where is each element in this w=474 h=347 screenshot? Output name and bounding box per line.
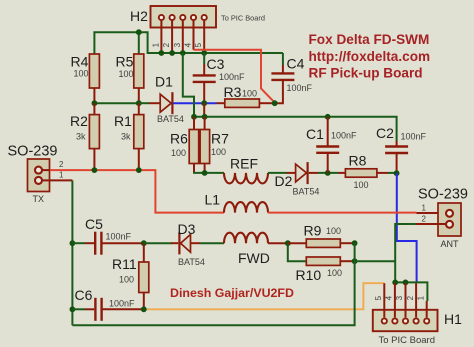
svg-text:100nF: 100nF xyxy=(106,232,132,242)
wire green bottom rail xyxy=(72,243,354,325)
header H1 xyxy=(373,310,438,331)
capacitor C2 xyxy=(385,141,408,173)
svg-text:100nF: 100nF xyxy=(331,131,357,141)
wire green R10 right to H1 pin4 xyxy=(355,260,396,262)
svg-text:Fox Delta FD-SWM: Fox Delta FD-SWM xyxy=(309,32,430,47)
svg-text:100nF: 100nF xyxy=(287,83,313,93)
resistor R11 xyxy=(143,243,145,262)
capacitor C3 xyxy=(193,53,216,103)
junction R6 top xyxy=(191,114,197,120)
svg-text:100nF: 100nF xyxy=(401,132,427,142)
wire C3 node down to R7 top row xyxy=(203,103,205,117)
diode D1 xyxy=(139,92,173,114)
svg-text:C5: C5 xyxy=(85,216,103,232)
svg-text:SO-239: SO-239 xyxy=(418,187,468,203)
svg-text:R9: R9 xyxy=(304,223,322,239)
wire TX pin2 stub xyxy=(42,169,51,171)
junction R7 top xyxy=(202,114,208,120)
junction left rail / C6 row xyxy=(70,306,76,312)
svg-text:1: 1 xyxy=(151,42,160,47)
svg-text:BAT54: BAT54 xyxy=(178,257,205,267)
wire R6 bottom to REF row xyxy=(193,164,195,173)
wire REF coil to D2 xyxy=(268,172,287,174)
junction R3 right / C4 / red net xyxy=(272,100,278,106)
svg-text:2: 2 xyxy=(59,160,64,169)
junction at R5 top xyxy=(136,29,142,35)
pin H2.1 xyxy=(160,21,162,53)
svg-text:3: 3 xyxy=(395,295,404,300)
junction R9 right xyxy=(352,240,358,246)
svg-text:H1: H1 xyxy=(444,311,462,327)
wire R7 bottom to REF row xyxy=(204,164,206,173)
wire green C5 left lead xyxy=(72,242,85,244)
wire green D3 to FWD coil xyxy=(200,242,224,244)
wire R5 top lead xyxy=(138,32,140,54)
junction R11 top xyxy=(141,240,147,246)
svg-text:http://foxdelta.com: http://foxdelta.com xyxy=(309,49,431,64)
svg-text:3k: 3k xyxy=(121,132,131,142)
svg-text:3: 3 xyxy=(173,42,182,47)
wire green D2 to C1 bottom node xyxy=(318,172,338,174)
svg-text:2: 2 xyxy=(406,295,415,300)
diode D3 xyxy=(171,232,200,254)
junction C1 top xyxy=(325,114,331,120)
junction H1 pin4 xyxy=(392,280,398,286)
wire green between R4 and R1 junctions xyxy=(94,102,138,104)
svg-text:2: 2 xyxy=(422,215,427,224)
wire R5 bottom lead xyxy=(138,88,140,103)
svg-text:100: 100 xyxy=(354,180,369,190)
svg-text:100: 100 xyxy=(242,89,257,99)
svg-text:R11: R11 xyxy=(112,256,137,272)
svg-text:1: 1 xyxy=(59,171,64,180)
pin H2.5 xyxy=(203,21,205,53)
svg-text:5: 5 xyxy=(374,295,383,300)
svg-text:C4: C4 xyxy=(287,56,305,72)
pin H1.4 xyxy=(394,283,396,317)
header H2 xyxy=(151,6,217,28)
resistor R4 xyxy=(89,54,99,88)
inductor L1 coil (bumps up) xyxy=(224,202,268,213)
resistor R10 xyxy=(306,257,340,265)
resistor R6 xyxy=(193,117,195,130)
pin H2.4 xyxy=(193,21,195,50)
svg-text:C1: C1 xyxy=(306,126,324,142)
wire ANT pin2 stub xyxy=(416,223,446,225)
svg-text:R4: R4 xyxy=(71,54,89,70)
svg-text:D2: D2 xyxy=(275,173,293,189)
resistor R3 xyxy=(217,102,225,104)
resistor R1 xyxy=(138,103,140,114)
svg-text:100: 100 xyxy=(211,147,226,157)
inductor REF coil (bumps down) xyxy=(224,173,268,184)
resistor R9 xyxy=(288,242,307,244)
junction R7 bottom xyxy=(202,170,208,176)
svg-text:H2: H2 xyxy=(130,8,148,24)
svg-text:To PIC Board: To PIC Board xyxy=(379,335,436,346)
svg-text:ANT: ANT xyxy=(441,239,460,249)
pin H1.2 xyxy=(415,283,417,317)
wire green C5 node to D3 xyxy=(144,242,172,244)
svg-text:C2: C2 xyxy=(376,125,394,141)
svg-text:R6: R6 xyxy=(170,131,188,147)
wire green row R6/R7 tops to C1, C2 xyxy=(194,117,397,141)
svg-text:1: 1 xyxy=(416,295,425,300)
svg-text:100: 100 xyxy=(119,275,134,285)
wire green ANT pin2 down to H1 area xyxy=(395,224,415,282)
svg-text:RF Pick-up Board: RF Pick-up Board xyxy=(309,66,423,81)
resistor R7 xyxy=(204,117,206,130)
pin H2.2 xyxy=(171,21,173,53)
svg-text:To PIC Board: To PIC Board xyxy=(221,13,265,22)
svg-text:100: 100 xyxy=(326,226,341,236)
wire green FWD coil to R9 node xyxy=(268,242,288,244)
svg-text:100: 100 xyxy=(171,148,186,158)
resistor R5 xyxy=(134,54,144,88)
inductor FWD coil (bumps up) xyxy=(224,233,268,243)
svg-text:R5: R5 xyxy=(116,54,134,70)
resistor R2 xyxy=(93,103,95,114)
svg-text:R7: R7 xyxy=(211,131,229,147)
junction D1/C3/R3 node xyxy=(201,100,207,106)
junction left rail / C5 row xyxy=(70,240,76,246)
junction R9 left xyxy=(285,240,291,246)
svg-text:SO-239: SO-239 xyxy=(8,144,58,160)
wire blue D1 cathode to C3 node xyxy=(173,102,217,104)
svg-text:100: 100 xyxy=(74,69,89,79)
junction H1 pin3 xyxy=(403,280,409,286)
diode D2 xyxy=(287,162,319,184)
svg-text:TX: TX xyxy=(33,194,45,204)
pin H1.5 xyxy=(383,283,385,317)
svg-text:BAT54: BAT54 xyxy=(293,187,320,197)
wire green REF row left xyxy=(193,172,224,174)
svg-text:FWD: FWD xyxy=(238,250,270,266)
junction R4/R2 xyxy=(92,100,98,106)
pin H1.3 xyxy=(405,283,407,317)
pin H2.3 xyxy=(182,21,184,53)
svg-text:100: 100 xyxy=(119,69,134,79)
svg-text:100: 100 xyxy=(327,268,342,278)
svg-text:1: 1 xyxy=(422,204,427,213)
svg-text:4: 4 xyxy=(385,295,394,300)
wire red L1 to ANT pin1 xyxy=(268,212,416,214)
svg-text:3k: 3k xyxy=(76,132,86,142)
svg-text:100nF: 100nF xyxy=(219,72,245,82)
wire blue C2 node to ANT jog to H1 pin2 xyxy=(397,173,417,282)
wire TX pin1 green to left rail xyxy=(42,179,73,181)
svg-text:Dinesh Gajjar/VU2FD: Dinesh Gajjar/VU2FD xyxy=(170,286,294,300)
svg-text:100nF: 100nF xyxy=(109,299,135,309)
capacitor C1 xyxy=(316,117,339,173)
wire red TX net to L1 xyxy=(50,170,224,213)
svg-text:R1: R1 xyxy=(114,113,132,129)
svg-text:L1: L1 xyxy=(205,192,221,208)
svg-text:R3: R3 xyxy=(224,84,242,100)
junction H2 pin3 xyxy=(180,50,186,56)
wire R4 bottom lead xyxy=(93,88,95,103)
junction R1 bottom xyxy=(136,167,142,173)
wire green H1 pin row xyxy=(395,282,427,301)
capacitor C4 xyxy=(271,53,294,103)
junction H2 pin5 xyxy=(201,50,207,56)
junction R2 bottom xyxy=(92,167,98,173)
wire red net pin4 to R3 right / C4 bottom xyxy=(194,50,275,103)
svg-text:R2: R2 xyxy=(70,113,88,129)
svg-text:2: 2 xyxy=(162,42,171,47)
wire green C6 left lead xyxy=(72,308,85,310)
junction R10 right xyxy=(352,258,358,264)
svg-text:C3: C3 xyxy=(207,56,225,72)
svg-text:D3: D3 xyxy=(178,221,196,237)
svg-text:C6: C6 xyxy=(75,287,93,303)
svg-text:R8: R8 xyxy=(349,153,367,169)
junction R5/R1 xyxy=(136,100,142,106)
svg-text:D1: D1 xyxy=(155,74,173,90)
svg-text:5: 5 xyxy=(194,42,203,47)
resistor R8 xyxy=(338,172,345,174)
capacitor C5 xyxy=(95,232,144,255)
junction C1 bottom xyxy=(325,170,331,176)
wire green R9 node down to R10 xyxy=(288,243,307,261)
wire orange C6 node to H1 pin5 xyxy=(144,283,384,309)
wire green top bus R4/R5 to H2 pins and C4 xyxy=(94,32,283,54)
svg-text:R10: R10 xyxy=(296,267,322,283)
junction H2 pin1 xyxy=(159,50,165,56)
svg-text:BAT54: BAT54 xyxy=(157,114,184,124)
junction H2 pin2 xyxy=(169,50,175,56)
wire green H2 pin3 jog down to R6 top xyxy=(183,53,194,117)
pin H1.1 xyxy=(426,301,428,317)
junction R11 bottom / orange xyxy=(141,306,147,312)
svg-text:4: 4 xyxy=(184,42,193,47)
junction R8/C2/blue xyxy=(394,170,400,176)
capacitor C6 xyxy=(95,298,143,321)
svg-text:REF: REF xyxy=(230,156,258,172)
